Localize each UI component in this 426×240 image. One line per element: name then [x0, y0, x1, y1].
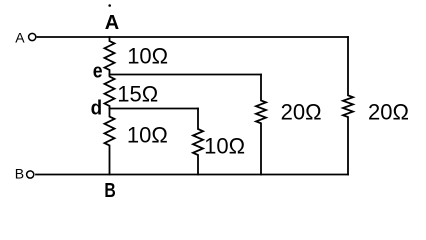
svg-text:d: d — [91, 97, 103, 119]
terminal B circle — [27, 171, 34, 178]
resistor R3 10ohm (d to B) — [105, 109, 115, 175]
svg-text:A: A — [15, 30, 25, 46]
resistor R4 10ohm (d branch) — [193, 109, 203, 175]
svg-text:10Ω: 10Ω — [127, 44, 168, 69]
svg-text:e: e — [93, 61, 103, 83]
svg-text:B: B — [104, 180, 115, 202]
resistor R2 15ohm (e to d) — [105, 75, 115, 109]
resistor R6 20ohm (right branch) — [343, 37, 353, 175]
svg-text:20Ω: 20Ω — [281, 100, 322, 125]
wire bottom: B terminal to bottom-right corner — [36, 174, 348, 176]
stray dot above node A — [108, 4, 111, 7]
wire top: A terminal to top-right corner — [38, 36, 349, 38]
resistor R5 20ohm (e branch) — [256, 75, 266, 175]
svg-text:15Ω: 15Ω — [117, 81, 158, 106]
svg-text:B: B — [15, 165, 24, 181]
wire node e horizontal — [110, 74, 262, 76]
svg-text:A: A — [105, 12, 119, 34]
svg-text:10Ω: 10Ω — [127, 123, 168, 148]
wire node d horizontal — [110, 108, 199, 110]
svg-text:10Ω: 10Ω — [204, 134, 245, 159]
resistor R1 10ohm (A to e) — [105, 37, 115, 75]
terminal A circle — [29, 33, 36, 40]
svg-text:20Ω: 20Ω — [368, 100, 409, 125]
